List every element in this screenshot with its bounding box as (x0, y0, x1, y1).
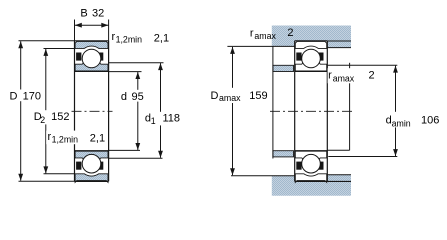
svg-text:152: 152 (51, 111, 69, 123)
svg-text:2: 2 (369, 70, 375, 82)
svg-text:amin: amin (392, 118, 411, 128)
svg-text:2: 2 (40, 115, 45, 125)
svg-text:amax: amax (333, 73, 355, 83)
svg-text:B: B (80, 7, 87, 19)
svg-text:D: D (10, 91, 18, 103)
svg-text:1,2min: 1,2min (52, 135, 79, 145)
svg-text:d: d (121, 91, 127, 103)
svg-text:2,1: 2,1 (90, 132, 105, 144)
svg-text:1,2min: 1,2min (116, 35, 143, 45)
svg-text:32: 32 (92, 7, 104, 19)
svg-text:2: 2 (287, 27, 293, 39)
svg-text:r: r (250, 27, 254, 39)
svg-text:D: D (211, 90, 219, 102)
svg-text:170: 170 (23, 91, 41, 103)
svg-text:106: 106 (421, 114, 439, 126)
svg-text:159: 159 (249, 90, 267, 102)
svg-text:1: 1 (151, 116, 156, 126)
svg-text:r: r (328, 70, 332, 82)
svg-text:amax: amax (254, 31, 276, 41)
svg-text:118: 118 (163, 113, 181, 125)
svg-text:95: 95 (132, 91, 144, 103)
svg-text:amax: amax (219, 93, 241, 103)
svg-text:2,1: 2,1 (154, 32, 169, 44)
